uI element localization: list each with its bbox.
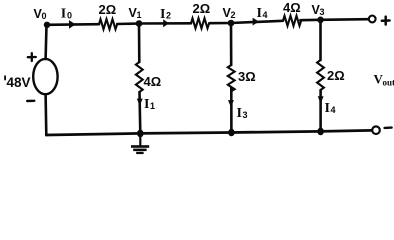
wire V3 down [319, 20, 322, 60]
resistor R 2ohm series 2 [191, 18, 209, 28]
arrow I3 down [228, 100, 234, 107]
apostrophe artifact [4, 76, 6, 81]
svg-text:48V: 48V [7, 75, 31, 90]
node ground junction [137, 130, 144, 138]
arrow I0 [69, 20, 76, 29]
resistor R 2ohm series 1 [99, 19, 117, 29]
svg-text:I: I [144, 97, 149, 112]
wire top rail V0 to R1 [47, 23, 99, 26]
svg-text:2Ω: 2Ω [327, 68, 345, 83]
node V1 [136, 20, 143, 27]
voltage source 48V [33, 59, 57, 94]
svg-text:4: 4 [263, 10, 268, 20]
svg-text:I: I [61, 7, 66, 22]
svg-text:out: out [383, 78, 394, 88]
arrow I4 down [318, 96, 324, 103]
ground bar 1 [131, 145, 149, 148]
terminal + circle [369, 16, 376, 23]
wire R1 to V1 [117, 22, 139, 25]
arrow I2 [163, 19, 169, 27]
svg-text:2Ω: 2Ω [99, 2, 117, 17]
terminal - circle [372, 126, 380, 134]
svg-text:I: I [160, 7, 165, 22]
svg-text:3Ω: 3Ω [238, 69, 256, 84]
wire R3 to V3 [300, 18, 320, 21]
node V3 [317, 17, 324, 24]
resistor R 4ohm shunt [136, 62, 143, 92]
node V2 [228, 20, 235, 27]
minus sign source [27, 100, 34, 103]
plus sign top right [382, 17, 390, 25]
plus sign source [28, 53, 36, 61]
svg-text:4: 4 [331, 105, 336, 115]
svg-text:2: 2 [231, 10, 236, 20]
wire V3 to + terminal [321, 18, 369, 21]
svg-text:4Ω: 4Ω [144, 74, 162, 89]
wire source to bottom rail [44, 94, 47, 135]
wire shunt2 to bottom [230, 88, 233, 133]
ground bar 2 [133, 149, 146, 152]
resistor R 3ohm shunt [228, 65, 235, 91]
svg-text:2: 2 [166, 11, 171, 21]
wire V1 down [138, 24, 141, 63]
arrow I1 down [137, 99, 143, 106]
svg-text:I: I [257, 6, 262, 21]
svg-text:4Ω: 4Ω [283, 0, 301, 15]
svg-text:3: 3 [243, 110, 248, 120]
node I3 junction [228, 129, 235, 137]
svg-text:3: 3 [320, 7, 325, 17]
minus sign bottom right [385, 126, 392, 129]
wire V2 down [230, 23, 233, 65]
ground bar 3 [136, 152, 143, 154]
svg-text:I: I [237, 106, 242, 121]
wire R2 to V2 [210, 22, 232, 25]
svg-text:I: I [325, 101, 330, 116]
arrow I4 top [253, 18, 259, 26]
wire V2 to R3 [231, 21, 283, 23]
resistor R 2ohm shunt [317, 60, 324, 90]
svg-text:0: 0 [42, 11, 47, 21]
wire shunt1 to bottom [138, 92, 141, 133]
node I4 junction [317, 128, 324, 136]
svg-text:1: 1 [150, 101, 155, 111]
svg-text:2Ω: 2Ω [193, 1, 211, 16]
node V0 [44, 22, 50, 28]
wire V0 down to source [44, 25, 48, 59]
wire bottom rail [46, 130, 371, 135]
svg-text:0: 0 [67, 11, 72, 21]
ground stem [139, 133, 141, 145]
wire V1 to R2 [139, 22, 191, 25]
wire shunt3 to bottom [319, 90, 322, 131]
svg-text:1: 1 [137, 10, 142, 20]
resistor R 4ohm series [283, 16, 301, 26]
